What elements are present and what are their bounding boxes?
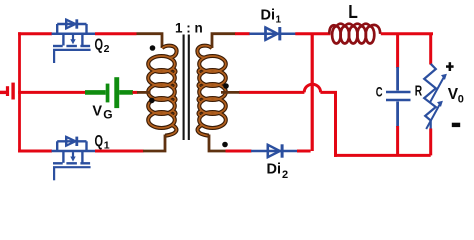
wire transformer bottom-left lead — [143, 135, 165, 152]
wire transformer bottom-right lead — [209, 135, 226, 152]
wire mid-left — [18, 91, 85, 94]
wire Di1 to L — [295, 32, 330, 35]
label V0 — [448, 86, 464, 106]
label Q1 — [95, 133, 110, 152]
wire transformer top-left lead — [137, 34, 163, 48]
wire secondary tap lead — [221, 91, 240, 94]
transformer secondary winding — [197, 46, 225, 136]
wire to Di2 — [226, 150, 252, 153]
svg-text:0: 0 — [458, 94, 464, 106]
svg-text:R: R — [415, 84, 423, 100]
svg-text:V: V — [92, 104, 102, 120]
wire top to Di1 — [235, 32, 250, 35]
wire center-tap with hop — [239, 84, 337, 92]
wire bottom-right rail — [334, 154, 431, 157]
svg-text:L: L — [348, 1, 358, 22]
wire transformer top-right lead — [212, 34, 236, 48]
left rail wire — [18, 32, 21, 152]
diode Di2 — [251, 144, 297, 158]
capacitor C — [386, 34, 411, 156]
node dot secondary lower — [222, 142, 228, 148]
wire mid to primary tap — [133, 91, 151, 94]
node dot primary top — [150, 45, 156, 51]
svg-text:Q: Q — [95, 133, 104, 150]
diode Di1 — [249, 27, 295, 41]
wire bottom mid — [95, 150, 144, 153]
svg-text:1 : n: 1 : n — [175, 21, 203, 36]
label C — [376, 85, 383, 100]
wire L to corner — [381, 32, 433, 35]
label L — [348, 1, 358, 22]
resistor R load — [424, 34, 447, 156]
svg-text:Q: Q — [95, 36, 104, 53]
label minus — [452, 123, 460, 127]
label VG — [92, 104, 112, 122]
svg-text:G: G — [103, 108, 112, 122]
transistor Q2 — [52, 19, 96, 63]
label Di2 — [267, 162, 289, 182]
label plus — [446, 62, 454, 71]
transistor Q1 — [52, 136, 96, 180]
node dot secondary upper — [223, 83, 229, 89]
svg-text:2: 2 — [282, 169, 288, 181]
source Vin battery — [0, 83, 15, 100]
source VG — [85, 77, 133, 108]
transformer primary winding — [148, 46, 176, 136]
wire top mid — [95, 32, 137, 35]
label Di1 — [261, 8, 282, 26]
wire return vertical — [334, 92, 337, 156]
label Q2 — [95, 36, 110, 55]
wire Di2 to bus corner — [297, 150, 311, 153]
wire top-left — [18, 32, 52, 35]
inductor L — [329, 24, 380, 44]
svg-text:1: 1 — [276, 15, 282, 26]
svg-text:2: 2 — [104, 43, 110, 55]
svg-text:C: C — [376, 85, 383, 100]
wire bottom-left — [18, 150, 52, 153]
svg-text:Di: Di — [261, 8, 276, 24]
svg-text:Di: Di — [267, 162, 282, 178]
transformer core — [184, 35, 189, 141]
label R — [415, 84, 423, 100]
wire rectifier bus vertical — [311, 34, 314, 151]
label 1 : n — [175, 21, 203, 36]
node dot primary lower — [149, 98, 155, 104]
